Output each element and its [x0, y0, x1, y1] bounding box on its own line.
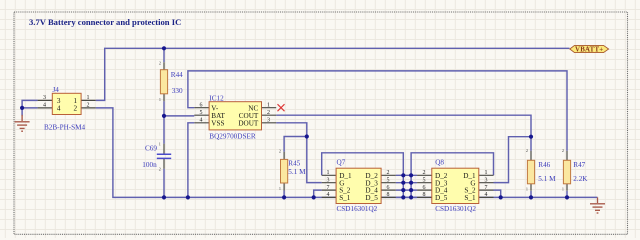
no-connect X on IC12 pin 1 [278, 104, 285, 111]
svg-text:6: 6 [200, 103, 203, 109]
svg-text:CSD16301Q2: CSD16301Q2 [435, 205, 476, 213]
svg-text:1: 1 [159, 142, 161, 147]
svg-text:1: 1 [159, 97, 161, 102]
svg-text:R47: R47 [573, 161, 585, 169]
svg-text:1: 1 [526, 187, 528, 192]
J4 pin name texts [57, 97, 78, 113]
svg-text:6: 6 [423, 185, 426, 191]
pin stubs J4 [38, 100, 96, 108]
connector J4 body [52, 93, 81, 114]
svg-text:2: 2 [526, 148, 528, 153]
svg-text:8: 8 [387, 192, 390, 198]
svg-text:1: 1 [87, 95, 90, 101]
svg-text:5: 5 [200, 110, 203, 116]
svg-text:2: 2 [87, 103, 90, 109]
svg-text:Q7: Q7 [337, 159, 346, 167]
Q8 pin name texts [435, 172, 476, 202]
tiny resistor/cap pin digits [159, 61, 564, 192]
svg-text:6: 6 [387, 185, 390, 191]
svg-text:BQ29700DSER: BQ29700DSER [209, 132, 256, 140]
wire Q8 S_2 jog to bus [494, 190, 501, 197]
resistor R47 body [563, 160, 570, 184]
wire BAT node to IC12 BAT pin [164, 115, 194, 117]
svg-text:2: 2 [267, 110, 270, 116]
wire Q7 S_2 jog to bus [314, 190, 322, 197]
pin stubs Q7 [322, 175, 396, 197]
svg-text:CSD16301Q2: CSD16301Q2 [337, 205, 378, 213]
svg-text:R46: R46 [538, 161, 550, 169]
svg-text:2: 2 [387, 170, 390, 176]
wire BAT node vertical R44-C69 [163, 101, 165, 144]
IC12 body [209, 102, 261, 130]
svg-text:2: 2 [279, 149, 281, 154]
svg-text:7: 7 [485, 185, 488, 191]
wire R46 bottom to bus [530, 191, 532, 198]
svg-text:5: 5 [387, 178, 390, 184]
wire R45 bottom to bus [283, 191, 285, 198]
wire bottom bus from J4 pin2 [96, 108, 598, 197]
Q7 pin name texts [339, 172, 378, 202]
transistor Q8 body [432, 168, 479, 203]
wire Q7 drain loop [322, 153, 404, 198]
wire C69 bottom to bus [163, 169, 165, 198]
svg-text:3: 3 [327, 178, 330, 184]
pin stubs IC12 [194, 108, 276, 123]
svg-text:3: 3 [485, 178, 488, 184]
svg-text:1: 1 [485, 170, 488, 176]
svg-text:S_1: S_1 [339, 194, 351, 202]
svg-text:4: 4 [327, 192, 330, 198]
wire COUT node to Q8 gate [494, 137, 532, 183]
svg-text:Q8: Q8 [435, 159, 444, 167]
svg-text:R44: R44 [171, 71, 183, 79]
svg-text:C69: C69 [145, 145, 157, 153]
pin stubs Q8 [417, 175, 493, 197]
svg-text:DOUT: DOUT [238, 119, 259, 127]
svg-text:4: 4 [485, 192, 488, 198]
svg-text:1: 1 [327, 170, 330, 176]
svg-text:B2B-PH-SM4: B2B-PH-SM4 [44, 123, 86, 131]
wire VSS to bus [188, 123, 194, 198]
svg-text:8: 8 [423, 192, 426, 198]
pin numbers IC12 [200, 103, 271, 124]
svg-text:2: 2 [159, 61, 161, 66]
svg-text:3.7V Battery connector and pro: 3.7V Battery connector and protection IC [29, 17, 181, 27]
svg-text:2: 2 [159, 167, 161, 172]
svg-text:7: 7 [327, 185, 330, 191]
transistor Q7 body [336, 168, 381, 203]
ground (battery minus, left) [15, 115, 30, 131]
svg-text:J4: J4 [53, 86, 60, 94]
wire V- to R47 top [188, 71, 567, 151]
wire Q7-Q8 drain rows [396, 175, 417, 197]
pin stubs C69 [163, 144, 165, 169]
pin numbers Q8 [423, 170, 488, 198]
wire R47 bottom to bus [566, 191, 568, 198]
wire VBATT+ top rail from J4 pin1 [96, 48, 570, 100]
resistor R44 body [160, 70, 167, 94]
svg-text:1: 1 [267, 103, 270, 109]
wire J4 left pins to ground node [22, 100, 37, 115]
svg-text:5.1 M: 5.1 M [538, 175, 556, 183]
wire DOUT to Q7 gate [276, 123, 322, 183]
svg-text:100n: 100n [142, 161, 157, 169]
svg-text:330: 330 [172, 87, 183, 95]
wire Q8 drain loop [411, 153, 493, 198]
svg-text:5: 5 [423, 178, 426, 184]
pin numbers Q7 [327, 170, 390, 198]
svg-text:VSS: VSS [211, 119, 224, 127]
svg-text:4: 4 [57, 105, 61, 113]
svg-text:1: 1 [562, 187, 564, 192]
svg-text:2.2K: 2.2K [573, 175, 588, 183]
resistor R45 body [281, 159, 288, 183]
pin stubs R47 [566, 151, 568, 191]
svg-text:4: 4 [200, 118, 203, 124]
svg-text:3: 3 [43, 95, 46, 101]
pin stubs R45 [283, 152, 285, 191]
capacitor C69 plates [157, 154, 171, 158]
svg-text:2: 2 [562, 148, 564, 153]
svg-text:2: 2 [423, 170, 426, 176]
pin stubs R46 [530, 151, 532, 191]
IC12 pin name texts [211, 104, 259, 127]
power flag VBATT+ [570, 45, 609, 53]
svg-text:2: 2 [74, 105, 78, 113]
svg-text:4: 4 [43, 103, 46, 109]
svg-text:VBATT+: VBATT+ [575, 46, 603, 53]
resistor R46 body [527, 160, 534, 184]
svg-text:R45: R45 [288, 160, 300, 168]
svg-text:D_5: D_5 [365, 194, 378, 202]
svg-text:IC12: IC12 [209, 95, 224, 103]
svg-text:1: 1 [279, 186, 281, 191]
pin numbers J4 [43, 95, 90, 109]
wire DOUT node to R45 top [284, 137, 307, 152]
svg-text:5.1 M: 5.1 M [288, 168, 306, 176]
wire COUT to R46 top [276, 115, 531, 151]
svg-text:S_1: S_1 [464, 194, 476, 202]
svg-text:3: 3 [267, 118, 270, 124]
ground (right, pack minus) [590, 197, 605, 213]
svg-text:D_5: D_5 [435, 194, 448, 202]
pin stubs R44 [163, 62, 165, 101]
wire R44 top to rail [163, 48, 165, 62]
